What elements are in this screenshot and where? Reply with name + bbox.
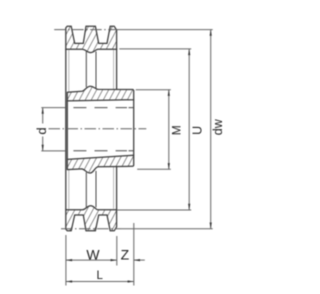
bore hidden line top (dashed) — [67, 107, 133, 109]
bore hidden line bottom (dashed) — [67, 150, 133, 152]
web plate left edge lower — [85, 172, 87, 207]
svg-text:M: M — [169, 125, 183, 135]
web plate right edge upper — [95, 52, 97, 89]
hub left face line — [66, 101, 68, 159]
hub lower band (hatched, web fillet bump below) — [67, 155, 133, 173]
web plate left edge upper — [85, 52, 87, 88]
rim right face line lower — [116, 166, 118, 210]
U extension line bottom — [117, 209, 191, 211]
dimension d line upper segment with arrow — [42, 108, 44, 124]
web edge line right lower (faint) — [113, 166, 115, 209]
web edge line left lower (faint) — [68, 169, 70, 209]
dimension Z arrow stub — [134, 259, 145, 261]
dimension U line with arrows — [188, 49, 190, 210]
svg-text:L: L — [96, 270, 103, 282]
hub right face line — [133, 100, 135, 156]
M extension line top — [136, 89, 171, 91]
dimension L line with arrows — [66, 281, 134, 283]
svg-text:W: W — [86, 246, 100, 262]
svg-text:Z: Z — [121, 246, 130, 262]
dw extension line bottom (solid) — [121, 228, 213, 230]
dimension d tick bottom — [41, 150, 65, 152]
dimension M line with arrows — [168, 90, 170, 170]
dimension W line with arrows — [66, 259, 117, 261]
svg-text:dw: dw — [211, 118, 225, 135]
W/L shared left extension line — [65, 235, 67, 286]
dimension d tick top — [41, 107, 65, 109]
rim top section (hatched, two V-grooves) — [66, 26, 117, 52]
Z/L right extension line — [133, 223, 135, 286]
hub upper band (hatched, web fillet bump on top) — [67, 86, 133, 101]
web edge line left upper (faint) — [68, 50, 70, 92]
web edge line right upper (faint) — [113, 50, 115, 90]
dimension d line lower segment with arrow — [42, 137, 44, 151]
W right extension line — [116, 236, 118, 266]
rim left face line — [65, 49, 67, 210]
rim bottom section (hatched, mirrored V-grooves) — [66, 206, 117, 231]
pitch line bottom dash-dot — [61, 228, 121, 230]
pitch line top dash-dot — [54, 29, 118, 31]
axis centerline (dash-dot) — [49, 128, 147, 130]
M extension line bottom — [137, 168, 171, 170]
U extension line top — [119, 48, 191, 50]
dw extension line top (solid) — [119, 29, 213, 31]
svg-text:d: d — [34, 127, 49, 134]
dimension dw line with arrows — [210, 30, 212, 229]
rim right face line upper — [116, 49, 118, 90]
svg-text:U: U — [191, 126, 205, 135]
web plate right edge lower — [95, 171, 97, 207]
